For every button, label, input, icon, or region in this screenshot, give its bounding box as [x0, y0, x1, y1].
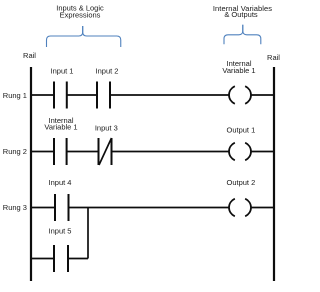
svg-text:Expressions: Expressions — [60, 11, 101, 20]
svg-text:Input 3: Input 3 — [95, 124, 118, 133]
svg-text:Rung 1: Rung 1 — [3, 91, 27, 100]
svg-text:Rung 2: Rung 2 — [3, 147, 27, 156]
svg-text:Variable 1: Variable 1 — [222, 66, 255, 75]
svg-text:& Outputs: & Outputs — [224, 10, 258, 19]
svg-text:Input 5: Input 5 — [49, 227, 72, 236]
svg-text:Output 1: Output 1 — [227, 126, 256, 135]
svg-text:Rail: Rail — [23, 51, 36, 60]
svg-text:Rung 3: Rung 3 — [3, 203, 27, 212]
svg-text:Rail: Rail — [267, 53, 280, 62]
svg-text:Input 2: Input 2 — [96, 67, 119, 76]
svg-text:Output 2: Output 2 — [227, 178, 256, 187]
svg-text:Input 1: Input 1 — [51, 67, 74, 76]
svg-text:Variable 1: Variable 1 — [44, 122, 77, 131]
svg-text:Input 4: Input 4 — [49, 178, 72, 187]
